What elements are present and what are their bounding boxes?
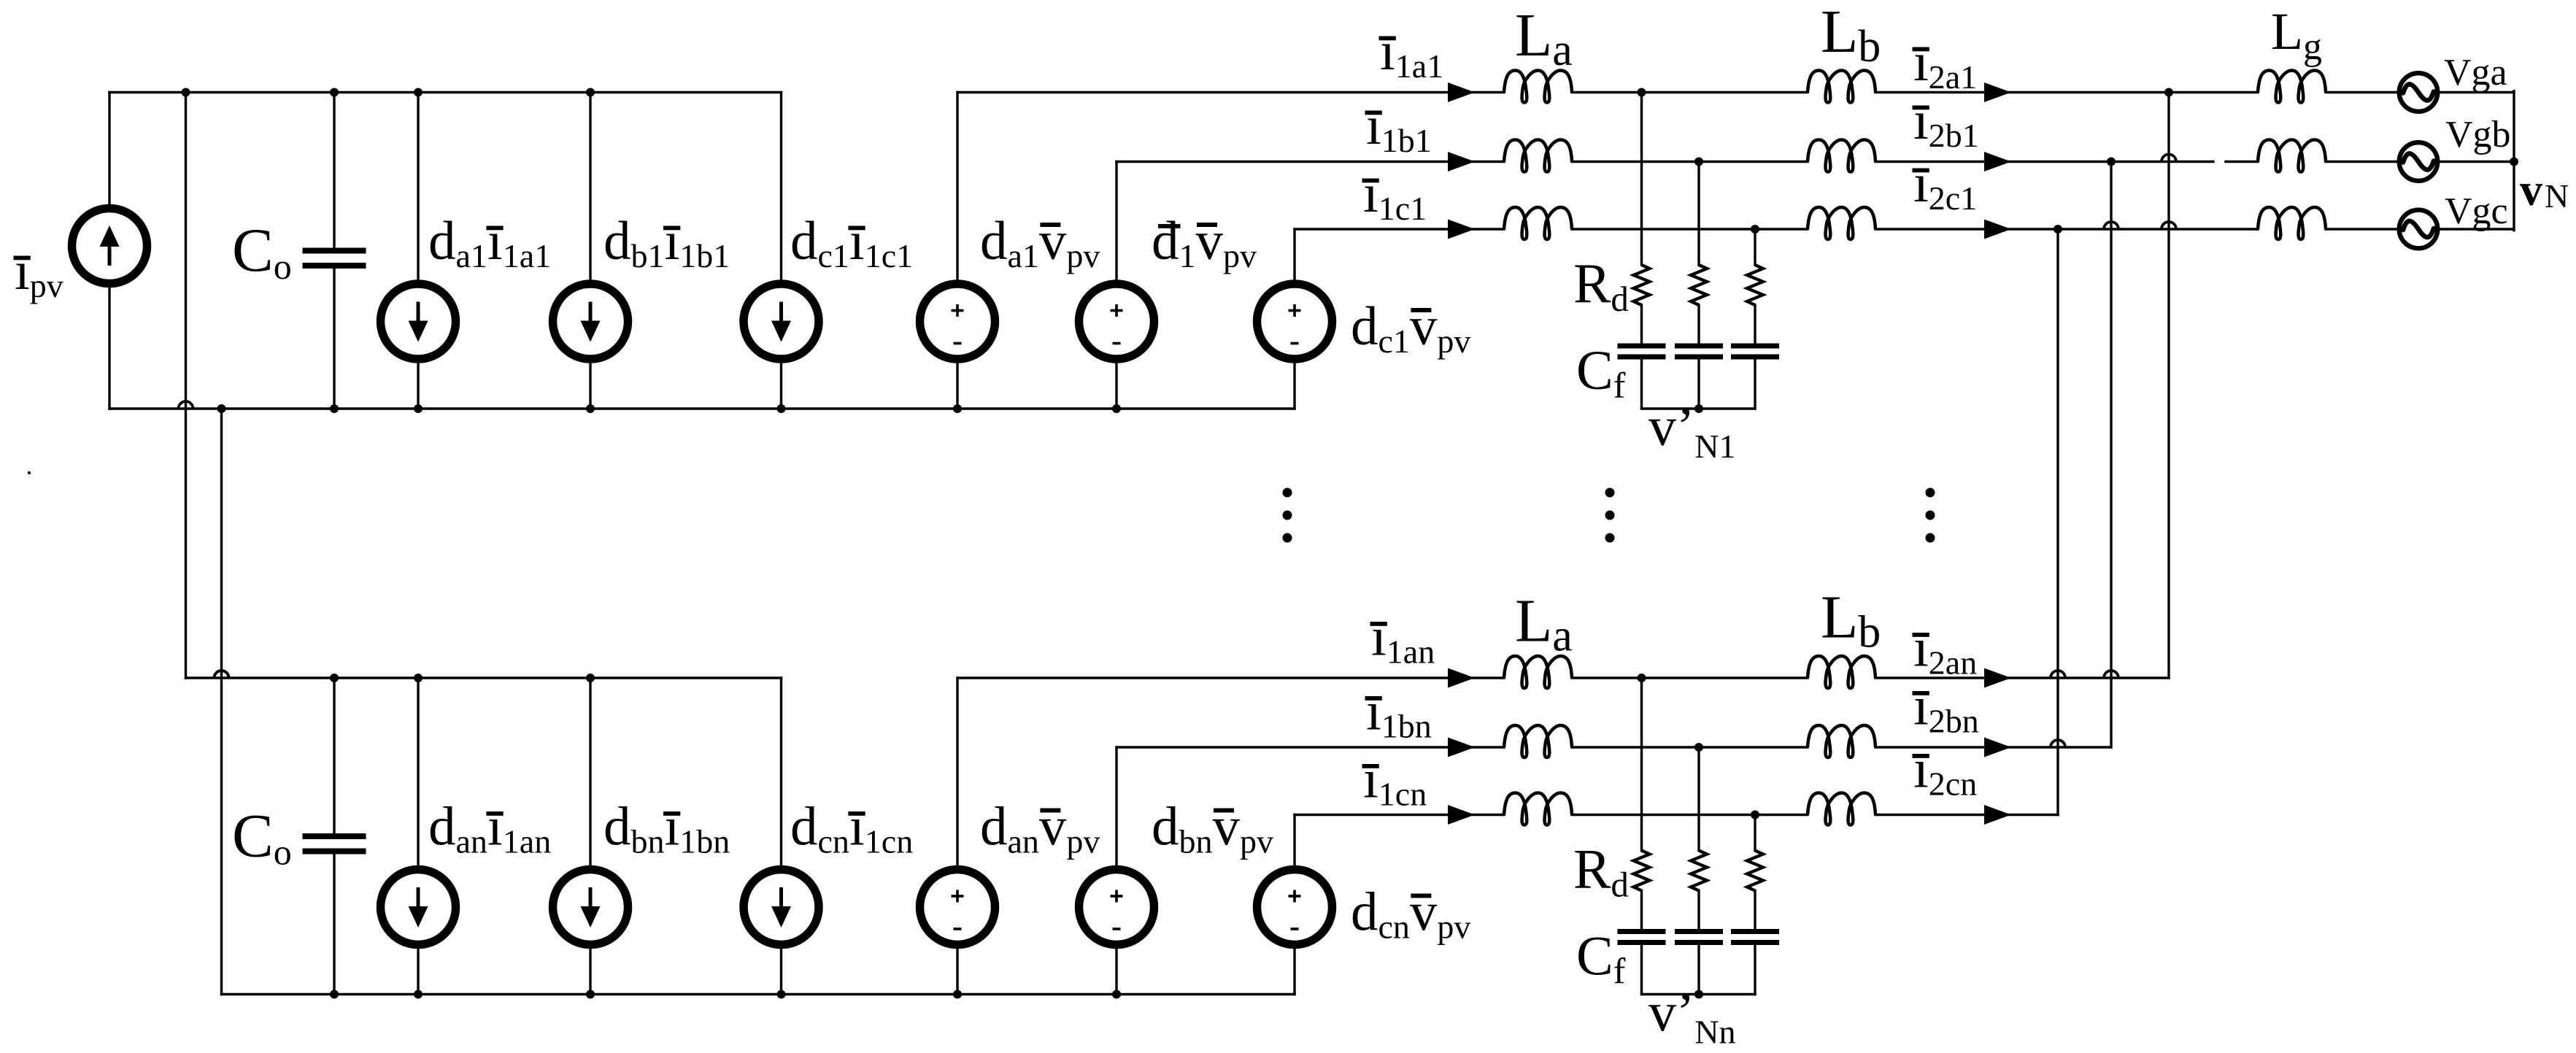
wire line b from db1-vsource to La <box>1117 161 1504 163</box>
arrow i2cn <box>1984 805 2011 825</box>
wire Vgb to right rail <box>2440 161 2515 163</box>
ellipsis continuation dots column 3 <box>1926 488 1935 498</box>
arrow i1an <box>1448 668 1475 688</box>
current source dbn*i1bn <box>553 870 628 945</box>
voltage source dbn*vpv <box>1079 870 1154 945</box>
wire Vgc to right rail <box>2440 228 2515 230</box>
wire line b segment after gap <box>2226 161 2258 163</box>
capacitor Cf line bn (section n) <box>1675 929 1723 934</box>
wire jump x=303 over bus-n top <box>215 671 229 678</box>
wire line an from dan-vsource to La <box>957 676 1504 679</box>
wire line c Lg to Vgc <box>2326 228 2398 230</box>
arrow i2bn <box>1984 738 2011 757</box>
wire tap line a to Rd (section1) <box>1640 93 1643 266</box>
inductor Lb line b (section1) <box>1808 140 1875 172</box>
node line bn filter tap <box>1694 743 1703 752</box>
wire line bn from dbn-vsource to La <box>1117 746 1504 748</box>
arrow i1b1 <box>1448 152 1475 171</box>
current source Ipv <box>72 209 147 284</box>
current source db1*i1b1 <box>553 284 628 359</box>
wire dc1 vsource top lead to line c <box>1293 229 1295 284</box>
wire line bn La to Lb <box>1572 746 1808 748</box>
voltage source db1*vpv <box>1079 284 1154 359</box>
node bus-n bottom / Co <box>330 990 339 999</box>
node bus-n bottom / dan source <box>414 990 423 999</box>
node top bus / da1 source <box>414 88 423 97</box>
arrow i1cn <box>1448 805 1475 825</box>
wire jump line an over x=2893 <box>2104 671 2118 678</box>
wire Vga to right rail <box>2440 91 2515 93</box>
voltage source dc1*vpv <box>1257 284 1333 359</box>
node neutral vN1 <box>1694 404 1703 413</box>
resistor Rd line an (section n) <box>1634 851 1650 891</box>
node line b filter tap <box>1694 158 1703 166</box>
inductor Lb line cn (section n) <box>1808 793 1875 825</box>
wire Rd to Cf line bn (section n) <box>1697 891 1700 930</box>
node neutral vNn <box>1694 990 1703 999</box>
wire line cn after Lb <box>1875 814 2058 816</box>
wire jump bus-n over x=303 <box>215 671 229 678</box>
inductor La line an (section n) <box>1504 656 1572 688</box>
wire Cf line bn to neutral (section n) <box>1697 945 1700 995</box>
wire jump line c over x=2972 <box>2162 222 2176 229</box>
stray mark <box>28 471 31 474</box>
wire line bn after Lb <box>1875 746 2111 748</box>
current source dcn*i1cn <box>744 870 819 945</box>
resistor Rd line b (section1) <box>1691 265 1707 305</box>
node bottom bus / dc1 source <box>777 404 786 413</box>
wire da1 source top lead <box>417 93 419 285</box>
wire bottom DC bus (section 1) <box>109 407 1295 409</box>
wire dbn source bottom lead <box>589 945 591 995</box>
wire Rd to Cf line c (section1) <box>1754 305 1756 344</box>
wire vertical interconnect x=303 (bottom bus to bus-n bottom) <box>220 409 223 995</box>
wire bottom DC bus (section n) <box>222 993 1295 995</box>
wire line c after Lb <box>1875 228 2258 230</box>
wire db1 source bottom lead <box>589 359 591 409</box>
wire dan vsource bottom lead <box>956 945 958 995</box>
wire line an La to Lb <box>1572 676 1808 679</box>
wire vertical interconnect x=254 (top bus to bus-n) <box>185 93 187 679</box>
node bottom bus / da1 vsource <box>953 404 962 413</box>
node bottom bus / interconnect x=303 <box>217 404 226 413</box>
arrow i1c1 <box>1448 220 1475 239</box>
current source da1*i1a1 <box>381 284 456 359</box>
inductor Lb line a (section1) <box>1808 71 1875 103</box>
wire right rail vertical <box>2513 91 2515 231</box>
ellipsis continuation dots column 2 <box>1605 488 1615 498</box>
svg-text:N: N <box>2545 177 2569 215</box>
node line b / vertical x=2893 <box>2107 158 2116 166</box>
wire tap line b to Rd (section1) <box>1697 162 1700 266</box>
node top bus / db1 source <box>586 88 595 97</box>
wire dcn source top lead <box>780 678 782 870</box>
wire jump line c over x=2893 <box>2104 222 2118 229</box>
wire Rd to Cf line a (section1) <box>1640 305 1643 344</box>
wire line a La to Lb <box>1572 91 1808 93</box>
wire Co top lead <box>333 93 335 249</box>
svg-text:v: v <box>2520 166 2542 215</box>
wire Cf line b to neutral (section1) <box>1697 360 1700 409</box>
node line an filter tap <box>1638 674 1646 682</box>
wire line a Lg to Vga <box>2326 91 2398 93</box>
AC source Vgc <box>2399 210 2438 249</box>
wire line cn La to Lb <box>1572 814 1808 816</box>
node bus-n / Co <box>330 674 339 682</box>
wire Co bottom lead <box>333 269 335 409</box>
wire dbn vsource bottom lead <box>1115 945 1117 995</box>
wire Cf line c to neutral (section1) <box>1754 360 1756 409</box>
resistor Rd line bn (section n) <box>1691 851 1707 891</box>
wire jump x=254 over bottom bus <box>179 401 193 409</box>
wire line c La to Lb <box>1572 228 1808 230</box>
wire Rd to Cf line an (section n) <box>1640 891 1643 930</box>
arrow i2an <box>1984 668 2011 688</box>
node bottom bus / da1 source <box>414 404 423 413</box>
wire Co-n top lead <box>333 678 335 834</box>
node bottom bus / Co <box>330 404 339 413</box>
resistor Rd line a (section1) <box>1634 265 1650 305</box>
node bus-n bottom / dbn vsource <box>1112 990 1121 999</box>
wire Cf line a to neutral (section1) <box>1640 360 1643 409</box>
resistor Rd line c (section1) <box>1747 265 1763 305</box>
wire top DC bus (section n) <box>186 676 782 679</box>
wire dbn vsource top lead to line bn <box>1115 747 1117 870</box>
wire line an after Lb <box>1875 676 2169 679</box>
wire top DC bus (section 1) <box>109 91 782 93</box>
wire Rd to Cf line cn (section n) <box>1754 891 1756 930</box>
wire Rd to Cf line b (section1) <box>1697 305 1700 344</box>
wire tap line cn to Rd (section n) <box>1754 815 1756 851</box>
wire Co-n bottom lead <box>333 855 335 995</box>
svg-text:Vga: Vga <box>2444 52 2507 93</box>
arrow i2c1 <box>1984 220 2011 239</box>
wire da1 vsource bottom lead <box>956 359 958 409</box>
wire Ipv leads <box>108 93 110 207</box>
inductor Lg line c <box>2258 207 2326 239</box>
wire db1 vsource top lead to line b <box>1115 162 1117 285</box>
wire line a after Lb <box>1875 91 2258 93</box>
wire dan source bottom lead <box>417 945 419 995</box>
wire dan vsource top lead to line an <box>956 678 958 870</box>
wire jump line an over x=2820 <box>2051 671 2065 678</box>
wire line b La to Lb <box>1572 161 1808 163</box>
inductor Lg line a <box>2258 71 2326 103</box>
wire line b Lg to Vgb <box>2326 161 2398 163</box>
wire dc1 source top lead <box>780 93 782 285</box>
svg-text:Vgc: Vgc <box>2445 190 2508 232</box>
node line cn filter tap <box>1751 811 1759 819</box>
wire vertical x=2820 (line c to line cn) <box>2056 229 2059 815</box>
ellipsis continuation dots column 1 <box>1283 488 1292 498</box>
wire jump line bn over x=2820 <box>2051 740 2065 747</box>
node bus-n bottom / dan vsource <box>953 990 962 999</box>
capacitor Cf line b (section1) <box>1675 344 1723 349</box>
node line c / vertical x=2820 <box>2054 225 2062 234</box>
voltage source dcn*vpv <box>1257 870 1333 945</box>
inductor Lb line bn (section n) <box>1808 725 1875 757</box>
current source dan*i1an <box>381 870 456 945</box>
capacitor Cf line an (section n) <box>1618 929 1666 934</box>
AC source Vgb <box>2399 142 2438 181</box>
wire da1 source bottom lead <box>417 359 419 409</box>
wire tap line bn to Rd (section n) <box>1697 747 1700 851</box>
inductor La line a (section1) <box>1504 71 1572 103</box>
inductor Lb line c (section1) <box>1808 207 1875 239</box>
inductor Lb line an (section n) <box>1808 656 1875 688</box>
wire line b after Lb <box>1875 161 2213 163</box>
arrow i1a1 <box>1448 82 1475 102</box>
capacitor Cf line c (section1) <box>1731 344 1779 349</box>
wire line a from da1-vsource to La <box>957 91 1504 93</box>
capacitor Co section n <box>303 833 366 839</box>
resistor Rd line cn (section n) <box>1747 851 1763 891</box>
wire tap line an to Rd (section n) <box>1640 678 1643 851</box>
voltage source da1*vpv <box>920 284 995 359</box>
wire jump line b over x=2972 <box>2162 155 2176 162</box>
node bottom bus / db1 vsource <box>1112 404 1121 413</box>
wire dc1 source bottom lead <box>780 359 782 409</box>
wire db1 vsource bottom lead <box>1115 359 1117 409</box>
capacitor Cf line cn (section n) <box>1731 929 1779 934</box>
arrow i2a1 <box>1984 82 2011 102</box>
inductor La line cn (section n) <box>1504 793 1572 825</box>
node line c filter tap <box>1751 225 1759 234</box>
node top bus / interconnect x=254 <box>182 88 190 97</box>
wire dbn source top lead <box>589 678 591 870</box>
node bus-n bottom / dcn source <box>777 990 786 999</box>
node bus-n bottom / dbn source <box>586 990 595 999</box>
wire db1 source top lead <box>589 93 591 285</box>
inductor La line bn (section n) <box>1504 725 1572 757</box>
wire dc1 vsource bottom lead <box>1293 359 1295 409</box>
current source dc1*i1c1 <box>744 284 819 359</box>
node vN on right rail <box>2510 158 2518 166</box>
inductor La line c (section1) <box>1504 207 1572 239</box>
wire dcn source bottom lead <box>780 945 782 995</box>
wire Cf line an to neutral (section n) <box>1640 945 1643 995</box>
wire vertical x=2893 (line b to line bn) <box>2110 162 2112 748</box>
wire line cn from dcn-vsource to La <box>1295 814 1504 816</box>
node bottom bus / db1 source <box>586 404 595 413</box>
wire dcn vsource top lead to line cn <box>1293 815 1295 870</box>
capacitor Cf line a (section1) <box>1618 344 1666 349</box>
wire vertical x=2972 (line a to line an) <box>2167 93 2170 679</box>
voltage source dan*vpv <box>920 870 995 945</box>
wire Cf line cn to neutral (section n) <box>1754 945 1756 995</box>
inductor La line b (section1) <box>1504 140 1572 172</box>
wire dan source top lead <box>417 678 419 870</box>
node bus-n / dbn source <box>586 674 595 682</box>
node line a filter tap <box>1638 88 1646 97</box>
wire dcn vsource bottom lead <box>1293 945 1295 995</box>
capacitor Co section 1 <box>303 248 366 254</box>
wire tap line c to Rd (section1) <box>1754 229 1756 265</box>
inductor Lg line b <box>2258 140 2326 172</box>
arrow i1bn <box>1448 738 1475 757</box>
wire neutral connector vN1 <box>1642 407 1756 409</box>
node line a / vertical x=2972 <box>2164 88 2173 97</box>
svg-text:Vgb: Vgb <box>2445 114 2511 155</box>
arrow i2b1 <box>1984 152 2011 171</box>
node top bus / Co <box>330 88 339 97</box>
AC source Vga <box>2399 73 2438 112</box>
node bus-n / dan source <box>414 674 423 682</box>
wire da1 vsource top lead to line a <box>956 93 958 285</box>
wire neutral connector vNn <box>1642 993 1756 995</box>
wire line c from dc1-vsource to La <box>1295 228 1504 230</box>
